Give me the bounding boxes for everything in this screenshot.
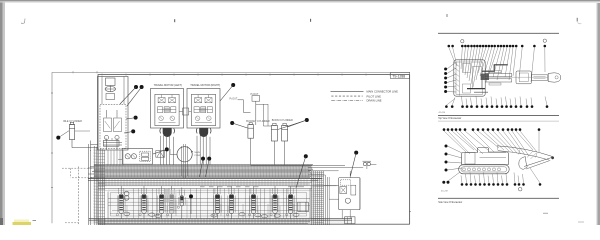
top panel bottom rule <box>438 114 559 116</box>
solenoid valve unit SV1 <box>118 149 153 165</box>
accessory block B1 <box>91 138 120 151</box>
bucket cylinder label <box>246 120 270 123</box>
spool valve V2 <box>139 186 148 219</box>
callout dot 8 <box>153 147 169 154</box>
boom cylinder CYL3 <box>282 123 288 165</box>
top panel left dot column <box>444 62 456 93</box>
excavator top view boom <box>485 71 561 85</box>
legend: pilot line <box>331 94 381 98</box>
spool valve V7 <box>249 186 258 219</box>
boom cylinder CYL2 <box>271 123 277 165</box>
relief valve RV1 double circle <box>124 191 129 200</box>
callout dot 10 <box>206 157 212 177</box>
page left gray border <box>0 0 5 225</box>
svg-text:TRAVEL MOTOR (RIGHT): TRAVEL MOTOR (RIGHT) <box>190 83 220 87</box>
excavator top view body <box>454 60 508 96</box>
side panel bottom pair <box>442 172 460 184</box>
wire bottom rails <box>89 218 352 224</box>
svg-text:TS-1288: TS-1288 <box>392 75 405 79</box>
svg-text:MAIN: MAIN <box>195 151 201 154</box>
callout dot 7 <box>278 118 309 130</box>
svg-text:4D-2M: 4D-2M <box>441 190 448 192</box>
callout dot 11 <box>296 154 308 188</box>
page mark tick 1 <box>174 19 176 22</box>
wire pump to bus <box>182 144 188 178</box>
callout dot 14 <box>56 131 69 140</box>
small dash near sheet bottom-left <box>33 220 37 222</box>
make-up check valve <box>251 161 377 169</box>
sheet outer border top <box>52 71 410 73</box>
svg-text:Top View Of Excavator: Top View Of Excavator <box>438 117 461 120</box>
top panel balloon b <box>543 39 546 42</box>
idle cylinder <box>69 122 98 147</box>
wire bank cross lines <box>108 189 310 219</box>
legend: main connector line <box>331 90 399 94</box>
side panel left dot column <box>445 145 463 172</box>
callout dot 1 <box>120 85 138 104</box>
callout dot 12 <box>350 151 358 176</box>
page top gray border <box>0 0 600 3</box>
side panel part number <box>441 190 448 192</box>
wire cylinder feed lines <box>256 104 272 126</box>
top panel dot row upper <box>448 45 547 87</box>
faint corner mark <box>21 19 25 24</box>
pilot control block PB1 <box>324 171 360 219</box>
legend: drain line <box>331 99 381 103</box>
callout dot 6 <box>230 121 247 128</box>
callout dot 9 <box>200 157 206 177</box>
side panel dot row lower <box>461 168 542 186</box>
excavator side view body <box>462 148 509 165</box>
side panel dot row upper <box>443 128 541 156</box>
top panel dot row lower <box>445 97 548 108</box>
page mark tick 4 <box>577 18 581 24</box>
travel motor left M1 <box>151 83 184 165</box>
svg-text:P1OUT: P1OUT <box>230 98 238 101</box>
wire dashed drain lines left <box>62 167 92 226</box>
excavator side view tracks <box>459 165 510 174</box>
wire vertical bus left <box>89 144 105 225</box>
yellow highlight bar bottom-left <box>13 222 32 225</box>
callout dot 5 <box>124 129 135 133</box>
side panel balloon <box>518 187 522 191</box>
boom cylinder label <box>272 119 293 122</box>
svg-text:PILOT LINE: PILOT LINE <box>367 94 382 98</box>
wire horizontal bus band <box>88 164 337 186</box>
top panel top rule <box>438 32 559 34</box>
spool valve V9 <box>286 186 295 219</box>
top panel part number <box>439 112 446 114</box>
callout dot 13 <box>189 194 193 214</box>
side panel bottom rule <box>438 197 559 199</box>
spool valve V4 <box>167 186 176 219</box>
spool valve V10 (short) <box>177 188 185 220</box>
spool valve V3 <box>157 186 166 219</box>
main pump P1 <box>170 147 201 162</box>
pilot valve pair in swivel block <box>100 105 126 151</box>
excavator side view boom <box>497 146 554 170</box>
gray shading in bank <box>164 189 170 203</box>
spool valve V6 <box>227 186 236 219</box>
node P2 OUT <box>251 93 260 125</box>
bucket cylinder CYL1 <box>248 123 254 166</box>
callout dot 3 <box>220 83 235 101</box>
travel motor right M2 <box>187 83 220 165</box>
svg-text:DRAIN LINE: DRAIN LINE <box>367 99 382 103</box>
spool valve V1 <box>116 186 125 219</box>
swivel joint block <box>98 77 129 151</box>
scan tone washes <box>88 164 352 224</box>
svg-text:BOOM CYLINDER: BOOM CYLINDER <box>272 119 293 122</box>
callout dot 2 <box>127 85 144 106</box>
side panel caption <box>438 201 462 204</box>
idle cylinder label <box>63 120 82 123</box>
crossover box between motors <box>179 108 191 115</box>
top panel caption <box>438 117 461 120</box>
svg-text:MAIN CONNECTOR LINE: MAIN CONNECTOR LINE <box>367 90 399 94</box>
pilot cap ellipses <box>124 212 299 218</box>
top panel lower rule 2 <box>438 120 559 122</box>
page mark tick 3 <box>446 14 448 17</box>
page mark tick 2 <box>310 19 312 22</box>
pump suction strainer S1 <box>156 151 165 158</box>
end block EB1 <box>298 202 309 211</box>
control valve bank outline <box>98 179 312 218</box>
node P1 OUT <box>230 98 251 113</box>
svg-text:4D-1M: 4D-1M <box>439 112 446 114</box>
spool valve V5 <box>213 186 222 219</box>
wire feeders from swivel block to bus <box>108 150 123 165</box>
spool valve V8 <box>270 186 279 219</box>
tiny port labels row <box>200 186 304 188</box>
top panel balloon a <box>461 40 464 43</box>
title box TS-1288 <box>391 72 410 78</box>
svg-text:Side View Of Excavator: Side View Of Excavator <box>438 201 462 204</box>
sheet outer border left <box>51 72 53 223</box>
svg-text:PUMP: PUMP <box>195 155 202 157</box>
wire vertical hatch band right <box>308 171 339 225</box>
small dash bottom right <box>578 221 584 223</box>
drawing frame <box>98 74 411 225</box>
callout dot 4 <box>126 116 138 120</box>
svg-text:TRAVEL MOTOR (LEFT): TRAVEL MOTOR (LEFT) <box>154 83 183 87</box>
tank block TB1 <box>345 217 355 224</box>
page right gray border <box>596 3 600 225</box>
small dash right <box>543 212 548 214</box>
